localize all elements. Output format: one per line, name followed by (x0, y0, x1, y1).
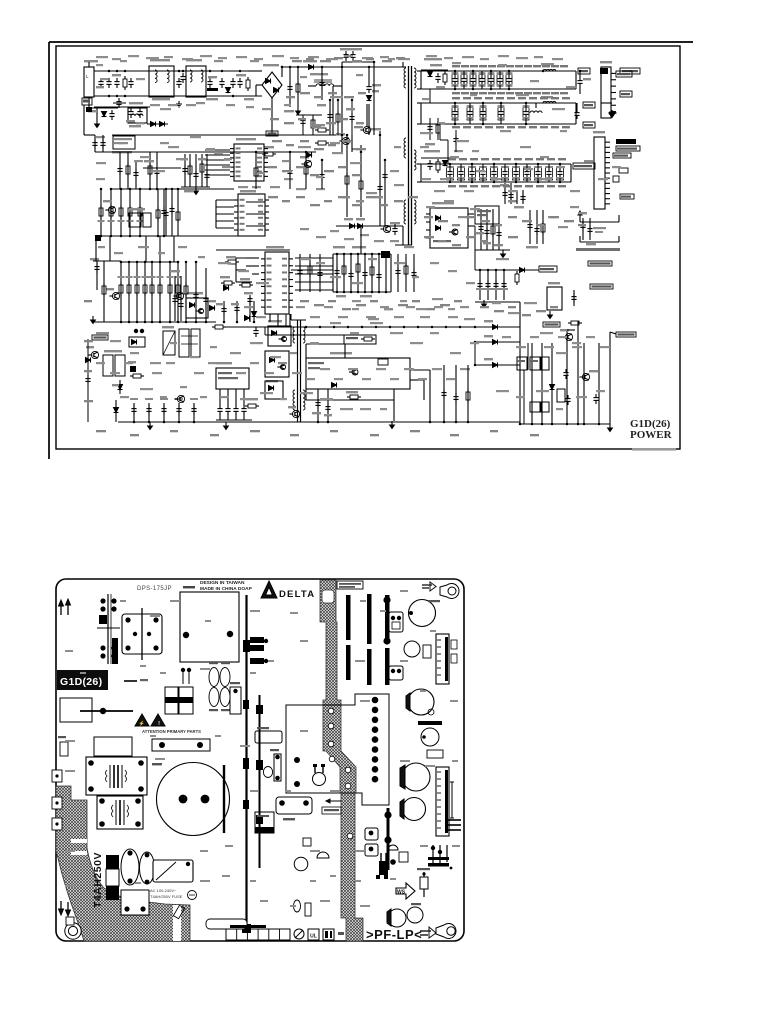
hatched copper left region (56, 786, 190, 941)
diodes D9S1 D9S2 (336, 225, 380, 227)
rectified rail + (112, 134, 342, 136)
diode D6S1 (520, 268, 525, 273)
more verticals right of ladder (185, 262, 187, 322)
row2 cap CE6B (576, 109, 578, 113)
pill PWR_ON (588, 261, 612, 266)
res R9A2 (239, 284, 242, 286)
schematic frame (56, 46, 680, 449)
T1 primary winding (404, 68, 406, 88)
opto PC9S3 (265, 381, 283, 399)
ground row2 (611, 110, 613, 114)
connector CN3 bottom (436, 767, 449, 836)
strip hole 5 (345, 767, 351, 773)
PFC diode D9C1 (282, 66, 403, 68)
capacitor C6C4 (480, 167, 487, 180)
sense-duty block (306, 358, 410, 389)
capacitor C6B2 (467, 106, 473, 120)
svg-text:POWER: POWER (630, 429, 673, 441)
PFC controller IC9C1 (234, 144, 264, 181)
capacitor C6A2 (461, 73, 467, 86)
IC9A1 box (216, 368, 249, 389)
strip hole 7 (347, 833, 353, 839)
capacitor C6C3 (469, 167, 476, 180)
diode D9A5 (114, 408, 119, 413)
rect C34B (423, 645, 431, 658)
junction dots (108, 70, 111, 73)
CN6A2 pin box SB (620, 194, 634, 199)
mid vertical x333 (332, 86, 334, 135)
svg-text:DELTA: DELTA (279, 589, 315, 600)
PWM controller IC9S1 (265, 252, 289, 314)
cap bar cluster (418, 721, 442, 725)
PFC MOSFET Q9C1 (363, 126, 370, 133)
box pair X9A2 (179, 329, 189, 357)
relay RL9L1 (128, 108, 147, 123)
svg-text:>PF-LP<: >PF-LP< (366, 927, 422, 942)
bottom rail left (118, 421, 265, 423)
transistor pad TO220 b (389, 666, 403, 680)
res R9A1 (221, 282, 224, 284)
black transistor Q6 (379, 861, 388, 875)
edge boxes CP (52, 770, 62, 782)
cap CN61 wedge circle (388, 909, 406, 927)
cap c6s (487, 270, 489, 300)
capacitor C6C1 (447, 167, 454, 180)
strip hole 2 (328, 723, 334, 729)
left edge drop (87, 339, 89, 422)
diode D6S3 (550, 385, 555, 390)
row2 pin boxes (583, 102, 595, 108)
small rect comp (303, 838, 311, 846)
warning triangle lightning (135, 714, 149, 726)
cluster diodes mid (432, 845, 434, 865)
pad (95, 235, 101, 241)
cap C24B (409, 600, 436, 627)
cert circle mark (294, 929, 304, 939)
rotation mark (188, 891, 197, 900)
cap C9A1 (96, 261, 98, 290)
resistor bar RX1 (152, 739, 210, 751)
svg-text:UL: UL (310, 934, 317, 940)
diode block D1 (165, 687, 178, 714)
standby caps4 (529, 210, 531, 244)
black bar right (387, 808, 390, 870)
upper labels row (96, 56, 108, 58)
pfc fb horiz (143, 167, 181, 169)
capacitor C6C2 (458, 167, 465, 180)
box with dots bottom (121, 890, 149, 915)
CN6A2 pin box ADJ (613, 176, 619, 182)
discharge resistor (124, 76, 126, 79)
cap c6s (495, 270, 497, 300)
mid rail (210, 188, 234, 190)
capacitor C6C8 (524, 167, 531, 180)
terminal strip (226, 929, 290, 940)
wire row y250 (216, 249, 290, 251)
diode D9A3 (252, 312, 257, 317)
top rail caps CE1 CE2 (342, 61, 374, 63)
regulator AZ431 box (344, 335, 376, 344)
ladder resistor (110, 189, 112, 236)
capacitor C6B5 (523, 106, 529, 120)
label box CN head (578, 68, 590, 74)
strip hole top (322, 590, 334, 603)
5VSB top cluster (475, 269, 539, 271)
diode block D2 (179, 687, 193, 714)
pcb trace vertical 1 (245, 595, 247, 930)
connector CN6A1 (601, 67, 611, 118)
svg-text:WS: WS (397, 890, 406, 896)
svg-text:ATTENTION PRIMARY PARTS: ATTENTION PRIMARY PARTS (142, 729, 201, 734)
az wire (265, 334, 344, 336)
small components left mid (60, 742, 68, 756)
CN6A2 pin box PS (619, 168, 628, 173)
left region notch (173, 905, 181, 941)
capacitor C6C5 (491, 167, 498, 180)
connector nubs right of T4 (250, 637, 264, 643)
shield bracket 2 (580, 241, 619, 243)
icb left wires (236, 257, 259, 259)
T1 top wire (403, 66, 406, 68)
capacitor C6A4 (479, 73, 485, 86)
capacitor C6A1 (452, 73, 458, 86)
WS arrow (396, 883, 415, 899)
cap C9A6 (130, 366, 136, 372)
ladder resistor (120, 189, 122, 236)
t2 top wires (291, 319, 306, 321)
cert box mark (323, 929, 334, 940)
T2 primary winding (293, 327, 295, 343)
strip hole 3 (328, 741, 334, 747)
snubber cluster 2 (421, 157, 450, 159)
bulk capacitor CE9C1 (368, 67, 370, 83)
left drop wires (246, 257, 259, 259)
ladder resistor (129, 189, 131, 236)
screw tab top-right (440, 584, 459, 599)
cap C9L3 (113, 102, 126, 104)
caps C9A3 C9A4 (223, 301, 225, 322)
extra labels dense zones (100, 78, 108, 80)
transformer T3 body (97, 796, 143, 829)
transistor Q602 (365, 844, 378, 856)
pcb board outline (56, 579, 464, 941)
standby sec caps2 (504, 183, 506, 204)
box pair relay drive (103, 355, 113, 376)
vertical joins bridge (271, 98, 273, 135)
controller IC9C2 box (238, 194, 265, 236)
surge arrester cluster (90, 107, 118, 109)
vertical rect R4A1 (230, 687, 241, 714)
left region slit 2 (71, 851, 87, 855)
res R6S1 (516, 271, 518, 274)
screw hole bottom-left (65, 923, 81, 939)
res R6S4 (568, 322, 571, 324)
comp C6S7 (565, 369, 567, 373)
t1 bottom wire (395, 244, 412, 246)
cap label (152, 763, 162, 765)
svg-text:DPS-175JP: DPS-175JP (137, 586, 172, 592)
res row right (245, 405, 248, 407)
left col x104 (93, 260, 121, 262)
thermistor TH9L1 (207, 88, 218, 91)
extra bottom-right diag web (523, 370, 525, 424)
left connector column (107, 594, 109, 664)
capacitor C6C7 (513, 167, 520, 180)
diode D9A2 (224, 286, 229, 291)
feedback network verticals (519, 327, 521, 424)
upper extra verticals (429, 89, 431, 103)
relay contact diodes (147, 123, 168, 125)
standby regulator box (547, 287, 562, 310)
diode D9C2 (307, 153, 312, 158)
inductor L6B1 (530, 111, 542, 113)
bottom web extra (429, 370, 431, 422)
transformer T2 body (86, 757, 147, 795)
jumper lines right (448, 819, 461, 821)
film cap E1 (121, 849, 139, 885)
box ACW (82, 98, 92, 105)
row above labels (452, 65, 460, 67)
pcb trace vertical 2 (259, 695, 261, 868)
varistor RV9L1 (100, 78, 102, 82)
sense diode rows (475, 326, 520, 328)
T1 pin dots (372, 697, 379, 704)
T1 left dots (294, 757, 300, 763)
capacitor C6B4 (498, 106, 504, 120)
cap C23B (408, 689, 434, 715)
cap C25B (421, 728, 439, 746)
pill SB (590, 284, 613, 289)
dash right of label (124, 680, 137, 682)
label box PWR (539, 266, 557, 272)
capacitor CY1 (178, 78, 180, 82)
strip hole 4 (329, 756, 335, 762)
ladder2 resistor (177, 262, 179, 322)
transistor Q9C4 (108, 206, 115, 213)
small caps pair (182, 668, 184, 684)
big cap C32 with wedge (403, 798, 426, 821)
capacitor C6A3 (470, 73, 476, 86)
scatter labels schematic (96, 64, 103, 66)
indicator dots (134, 329, 138, 333)
bottom cap (163, 403, 165, 422)
wire to bridge (248, 70, 262, 72)
transistor Q9A4 (177, 395, 184, 402)
opto IC9S2 (268, 326, 291, 346)
standby box cluster (475, 206, 499, 224)
MOSFET Q9C3 (304, 160, 311, 167)
res box row1 (517, 357, 527, 370)
bottom cap (178, 403, 180, 422)
connector CN6A2 (594, 137, 605, 209)
gnd left (92, 316, 94, 320)
bracket right (451, 782, 453, 818)
trace inside C5 (223, 765, 225, 833)
wire branches (567, 329, 575, 331)
svg-text:MADE IN CHINA DOAP: MADE IN CHINA DOAP (200, 586, 253, 592)
relay K1 body (122, 614, 162, 654)
standby ic to 5vsb (468, 225, 475, 227)
sense duty extra wires (306, 343, 376, 345)
capacitor CX2 (209, 78, 211, 82)
heatsink bar 1 (346, 595, 351, 640)
no-connect note (576, 248, 620, 251)
diode semicircle (388, 845, 398, 850)
capacitor C6C9 (535, 167, 542, 180)
heatsink bar 3 (385, 595, 390, 643)
PFC inductor L9C1 (316, 84, 334, 86)
secondary row3 rails (421, 163, 571, 165)
cap C9A5 (255, 327, 257, 331)
output cap CE6A1 (579, 77, 581, 81)
G1D label black (57, 670, 108, 690)
arrow left mark (330, 800, 341, 802)
opto PC9A1 (129, 337, 145, 347)
open rect left (60, 698, 92, 722)
gate resistors (315, 129, 318, 131)
svg-text:AC 100-240V~: AC 100-240V~ (150, 888, 177, 893)
t1 secondary taps (417, 70, 421, 72)
svg-text:T4AH250V: T4AH250V (92, 852, 104, 908)
bottom cap (148, 403, 150, 422)
transistor Q601 (365, 828, 378, 840)
capacitor CY2 (182, 73, 184, 77)
capacitor C9L5 (221, 78, 223, 82)
capacitor C9S3 (394, 225, 396, 229)
transformer T1 core (408, 66, 410, 245)
capacitor C9L7 (239, 78, 241, 82)
tall box X9A1 (163, 331, 175, 355)
thermistor with legs (313, 773, 326, 786)
strip hole 6 (345, 783, 351, 789)
pad2 (381, 251, 390, 258)
diode D9A1 (210, 306, 215, 311)
semicircle comp (317, 852, 329, 858)
gnd bottom (149, 422, 151, 426)
AC input rail N (94, 95, 262, 97)
big cap C31 with wedge (402, 763, 430, 791)
film cap E2 (140, 852, 155, 884)
pill 5VSB (543, 322, 560, 327)
NTC RT9L1 (247, 77, 249, 80)
ladder2 resistor (151, 262, 153, 322)
sense network verticals (346, 135, 348, 217)
svg-text:G1D(26): G1D(26) (60, 676, 102, 688)
CN6A2 pin box 5V (613, 153, 631, 158)
vertical cap C30 (274, 754, 281, 781)
bulk capacitor C5 circle (157, 763, 230, 836)
page corner rule (49, 41, 693, 43)
under row2 labels (292, 60, 302, 62)
rounded rect C24 (255, 731, 282, 743)
arrow icon bottom-right (420, 930, 431, 932)
resistor R9C1 (262, 153, 265, 155)
tiny dot right (450, 867, 453, 870)
cap IC4B (404, 641, 420, 657)
capacitor C9C5 (379, 183, 381, 187)
cap c6s (479, 270, 481, 300)
strip hole 1 (328, 708, 334, 714)
standby transformer T2 core (297, 320, 299, 422)
ladder2 resistor (136, 262, 138, 322)
standby caps right (582, 218, 584, 240)
secondary row2 rails (421, 102, 576, 104)
pwm left comps (225, 261, 228, 263)
zener ZD9C1 (266, 131, 278, 136)
vertical cap row x300 (305, 903, 311, 916)
svg-text:DESIGN IN TAIWAN: DESIGN IN TAIWAN (200, 580, 245, 586)
opto PC9S1 (186, 298, 208, 318)
transistor Q6S2 (565, 333, 572, 340)
IC fan right (295, 257, 333, 259)
bridge rectifier BD9L1 (262, 72, 282, 98)
ladder2 resistor (144, 262, 146, 322)
opto PC9S2 (265, 351, 289, 377)
cap B201 (407, 907, 423, 923)
current sense resistors (346, 173, 348, 176)
ladder2 resistor (120, 262, 122, 322)
rect C132 (427, 750, 443, 758)
secondary row1 top rail (421, 70, 576, 72)
IC9A1 pins (219, 389, 221, 406)
heatsink bar 2 (367, 594, 372, 644)
rounded rect K3 (276, 797, 312, 814)
right mid extra parts (429, 118, 431, 140)
cap c6s (503, 270, 505, 300)
svg-text:⚡: ⚡ (139, 720, 145, 727)
ladder2 resistor (169, 262, 171, 322)
capacitor C6A7 (506, 73, 512, 86)
bottom rail extension (265, 421, 394, 423)
transistor Q6S1 (582, 373, 589, 380)
mid web horizontals (246, 201, 265, 203)
MOSFET Q9A2 (176, 292, 183, 299)
ferrite bead FB6A2 (543, 101, 556, 103)
ic9c2 left wires (216, 199, 234, 201)
ladder caps (165, 190, 167, 236)
gnd 5vsb (483, 300, 485, 304)
down arrows mark (60, 901, 62, 911)
cap 200mA (423, 872, 425, 877)
mid band extra caps (317, 389, 319, 422)
black bars bottom right (428, 857, 449, 860)
CN6A2 pin box 12V (616, 139, 636, 144)
capacitor C6C10 (546, 167, 553, 180)
standby IC9S1 STY6200B (430, 208, 468, 248)
film caps CR21-24 (209, 668, 219, 687)
transistor Q9A3 (91, 351, 98, 358)
extra density AC lower rail (94, 106, 150, 108)
long mid rails (265, 326, 475, 328)
AC input rail L (94, 70, 262, 72)
warning triangle exclaim (151, 714, 165, 726)
primary snubber D6A1 (421, 69, 448, 71)
capacitor CX1 (130, 78, 132, 82)
scatter labels pcb (120, 600, 126, 602)
fuse F1 black body (106, 855, 119, 869)
left region slit 1 (71, 839, 87, 843)
pfc fb verticals (149, 152, 151, 189)
zener ZD9A1 (118, 385, 123, 390)
bottom wires standby (306, 399, 394, 401)
bottom cap (133, 403, 135, 422)
cap C6S5 (573, 293, 575, 297)
bar with dot (80, 710, 133, 712)
screw tab bottom-right (436, 924, 456, 939)
label box CN head2 (620, 68, 640, 74)
hatched copper strip center (320, 580, 363, 941)
standby sec caps (480, 209, 482, 250)
